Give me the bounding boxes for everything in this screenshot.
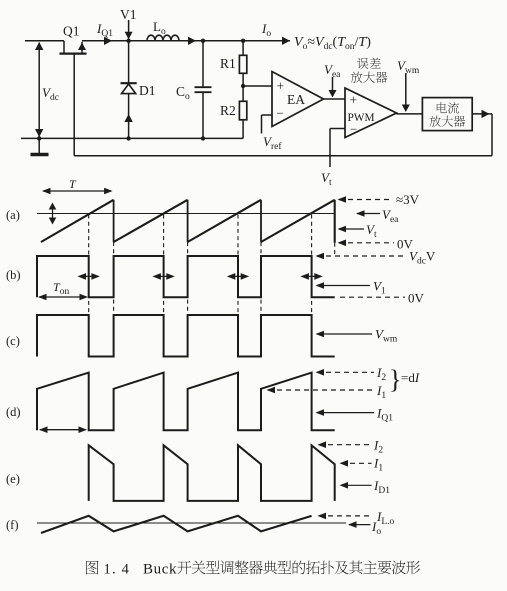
label approx 3V — [338, 196, 347, 203]
op-amp EA error amplifier — [272, 72, 324, 127]
current label I_Q1 with arrowhead — [104, 37, 112, 45]
period T arrow — [43, 190, 111, 192]
source V_dc with measuring arrows — [38, 43, 40, 137]
svg-text:+: + — [350, 93, 358, 108]
svg-text:0V: 0V — [408, 291, 425, 306]
resistor R1 — [242, 41, 244, 56]
dashed timing lines rises — [113, 242, 115, 314]
label V_1 arrow — [316, 282, 325, 289]
label V_dc V level — [316, 253, 325, 260]
ground — [37, 136, 41, 140]
svg-text:=dI: =dI — [401, 370, 420, 385]
svg-text:PWM: PWM — [348, 112, 375, 124]
output current I_o arrow — [282, 37, 290, 45]
svg-text:+: + — [277, 79, 285, 94]
svg-text:(e): (e) — [6, 472, 20, 486]
wire current amplifier output feedback — [472, 113, 492, 115]
label I_2 of I_D1 — [318, 441, 327, 448]
capacitor C_o — [202, 41, 204, 87]
wire V_t to PWM - input — [330, 128, 345, 130]
inductor L_o — [147, 35, 179, 41]
node at C_o junction — [201, 39, 205, 43]
wire arrowhead after L_o — [188, 37, 196, 45]
label 0V of sawtooth — [338, 240, 347, 247]
label V_t arrow — [338, 226, 347, 233]
node between R1 and R2 — [241, 84, 245, 88]
svg-text:(c): (c) — [6, 334, 20, 348]
resistor R2 — [242, 86, 244, 101]
svg-text:(f): (f) — [6, 518, 19, 532]
svg-text:}: } — [389, 365, 401, 394]
final sawtooth drop — [334, 200, 336, 243]
transistor Q1 — [63, 41, 65, 54]
average line I_o — [37, 522, 346, 524]
ripple double arrow on V_ea line — [52, 205, 54, 222]
label V_wm arrow — [316, 331, 325, 338]
wire top rail from Q1 to output arrow — [82, 40, 290, 42]
svg-text:V1: V1 — [120, 7, 137, 22]
diode D1 — [128, 41, 130, 83]
svg-text:1. 4: 1. 4 — [104, 562, 131, 578]
sawtooth ramps — [41, 200, 335, 242]
svg-text:R1: R1 — [220, 56, 236, 71]
svg-text:−: − — [277, 106, 284, 121]
wire from R1R2 node to EA + input — [243, 85, 272, 87]
wire EA output to PWM — [324, 98, 346, 100]
modulation arrows at fall edges — [80, 275, 98, 277]
svg-text:Buck: Buck — [143, 562, 177, 578]
V_ea level line — [37, 213, 335, 215]
label error amplifier (Chinese) — [357, 58, 368, 69]
node at V1/D1 junction — [126, 39, 130, 43]
width arrow under first pulse — [40, 429, 86, 431]
dashed timing lines falls — [88, 215, 90, 315]
label I_Lo dashed arrow — [318, 513, 327, 520]
label I_D1 arrow — [340, 482, 349, 489]
svg-text:(b): (b) — [6, 268, 21, 282]
node C_o bottom — [201, 136, 205, 140]
node at R1 junction — [241, 39, 245, 43]
wire PWM output to current amplifier — [397, 113, 423, 115]
svg-text:D1: D1 — [139, 83, 156, 98]
label I_2 of I_Q1 — [316, 369, 325, 376]
label I_o arrow — [348, 521, 357, 528]
svg-text:(d): (d) — [6, 405, 21, 419]
svg-text:(a): (a) — [6, 208, 20, 222]
label V_ea arrow — [356, 210, 365, 217]
label I_Q1 arrow — [316, 409, 325, 416]
svg-text:R2: R2 — [220, 103, 236, 118]
node D1 bottom — [126, 136, 130, 140]
wire V_ref to EA - input — [262, 114, 273, 116]
figure caption — [86, 561, 99, 575]
wire bottom rail — [21, 137, 243, 139]
svg-text:EA: EA — [287, 92, 305, 107]
label I_1 of I_Q1 — [267, 387, 276, 394]
comparator PWM — [345, 88, 397, 138]
label 0V of V_1 — [340, 296, 405, 298]
wire feedback line from current amp to Q1 gate — [74, 155, 492, 157]
current amplifier box (Chinese) — [422, 98, 472, 131]
svg-text:Q1: Q1 — [63, 24, 80, 39]
svg-text:≈3V: ≈3V — [396, 192, 420, 207]
wire top rail left segment — [25, 40, 64, 42]
wire gate line of Q1 down to feedback — [73, 54, 75, 156]
label I_1 of I_D1 — [340, 460, 349, 467]
T_on arrow — [39, 296, 87, 298]
